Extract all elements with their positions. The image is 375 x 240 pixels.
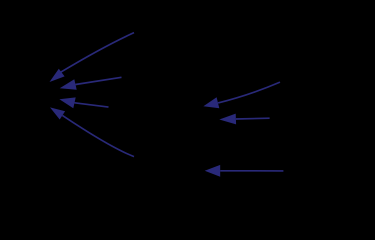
arrowhead R2 <box>219 114 236 125</box>
arrowhead B <box>60 79 77 89</box>
arrowhead R1 <box>203 97 219 108</box>
wire arrow D shaft (curved, bottom to left hub) <box>62 115 134 156</box>
arrowhead D <box>50 107 65 119</box>
arrowhead C <box>59 97 75 108</box>
wire arrow R2 shaft (horizontal to right hub) <box>236 117 270 120</box>
wire arrow C shaft <box>75 103 109 107</box>
wire arrow R1 shaft (diagonal to right hub) <box>218 82 280 103</box>
wire arrow B shaft <box>76 77 122 84</box>
wire arrow R3 shaft (horizontal bottom to right hub) <box>220 170 283 172</box>
wire arrow A shaft (top-right to left hub) <box>61 33 134 73</box>
arrowhead A <box>50 69 65 82</box>
arrowhead R3 <box>205 165 221 177</box>
